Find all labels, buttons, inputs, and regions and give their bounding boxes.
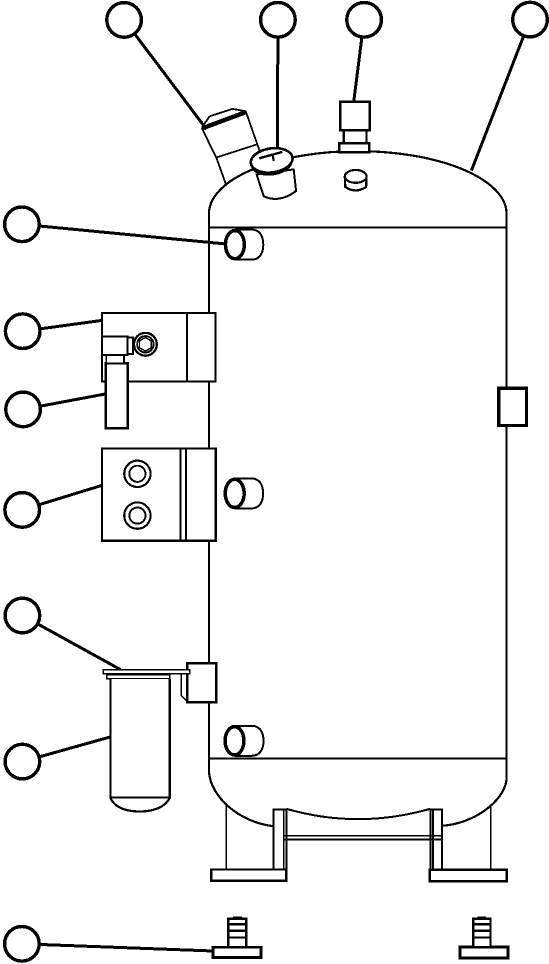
callout balloon 11 xyxy=(5,927,40,962)
leader line to filter flange xyxy=(22,616,120,670)
middle left port xyxy=(225,478,263,508)
elbow nut xyxy=(106,355,124,363)
leader line to valve block 2 xyxy=(22,485,102,510)
bottom left port xyxy=(225,726,263,756)
rear right leg xyxy=(490,805,492,870)
leader line to valve block 1 xyxy=(23,320,102,331)
upper left port xyxy=(225,230,263,260)
leader line to safety valve xyxy=(124,20,206,129)
elbow arm xyxy=(102,336,128,355)
callout balloon 4 xyxy=(513,2,548,37)
port B outer xyxy=(124,502,150,528)
filter collar xyxy=(107,675,170,679)
callout balloon 10 xyxy=(5,744,40,779)
bottom head right curve xyxy=(442,759,507,826)
leader line to upper left port xyxy=(22,224,224,244)
right side fitting xyxy=(499,388,527,425)
leader line to filter bowl xyxy=(22,737,110,762)
callout balloon 2 xyxy=(261,3,296,38)
front left leg xyxy=(273,810,286,870)
right anchor bolt xyxy=(460,916,508,958)
callout balloon 5 xyxy=(5,207,40,242)
leader line to top valve xyxy=(354,20,364,102)
pressure gauge xyxy=(249,146,296,199)
callout balloon 8 xyxy=(5,493,40,528)
leg cross bar xyxy=(284,836,442,840)
front right leg xyxy=(430,810,441,870)
leader line to drop pipe xyxy=(23,394,106,410)
top valve block xyxy=(339,102,370,152)
filter bowl xyxy=(111,679,170,812)
top plug xyxy=(345,170,367,190)
leader line to anchor bolt xyxy=(22,944,213,951)
tank left wall xyxy=(208,211,210,759)
leader line to tank dome xyxy=(471,20,530,171)
filter mounting block xyxy=(181,663,216,702)
tank right wall upper xyxy=(505,211,507,388)
port A inner xyxy=(129,466,145,482)
fitting ring xyxy=(128,338,133,354)
left foot plate xyxy=(211,870,286,881)
drop pipe xyxy=(106,363,128,428)
tank shell xyxy=(209,151,507,826)
port boss inner xyxy=(137,336,153,352)
bottom head left curve xyxy=(209,759,273,827)
tank dome xyxy=(209,151,507,212)
safety valve body xyxy=(202,109,261,185)
tank right wall lower xyxy=(505,425,507,758)
left anchor bolt xyxy=(213,916,261,957)
port hex xyxy=(140,338,152,352)
port B inner xyxy=(129,507,145,523)
valve block 2 xyxy=(102,449,216,541)
bottom head front seam arc xyxy=(286,809,430,819)
valve block 1 xyxy=(102,313,216,428)
callout balloon 6 xyxy=(5,314,40,349)
port boss outer xyxy=(134,333,157,356)
rear left leg xyxy=(225,805,227,870)
port A outer xyxy=(124,461,150,487)
right foot plate xyxy=(430,870,507,881)
callout balloon 9 xyxy=(5,598,40,633)
bottom weld seam xyxy=(209,757,507,759)
leader line to gauge xyxy=(276,20,279,148)
top weld seam xyxy=(209,227,507,229)
callout balloon 3 xyxy=(347,3,382,38)
filter flange plate xyxy=(103,670,190,674)
callout balloon 7 xyxy=(6,392,41,427)
callout balloon 1 xyxy=(107,3,142,38)
